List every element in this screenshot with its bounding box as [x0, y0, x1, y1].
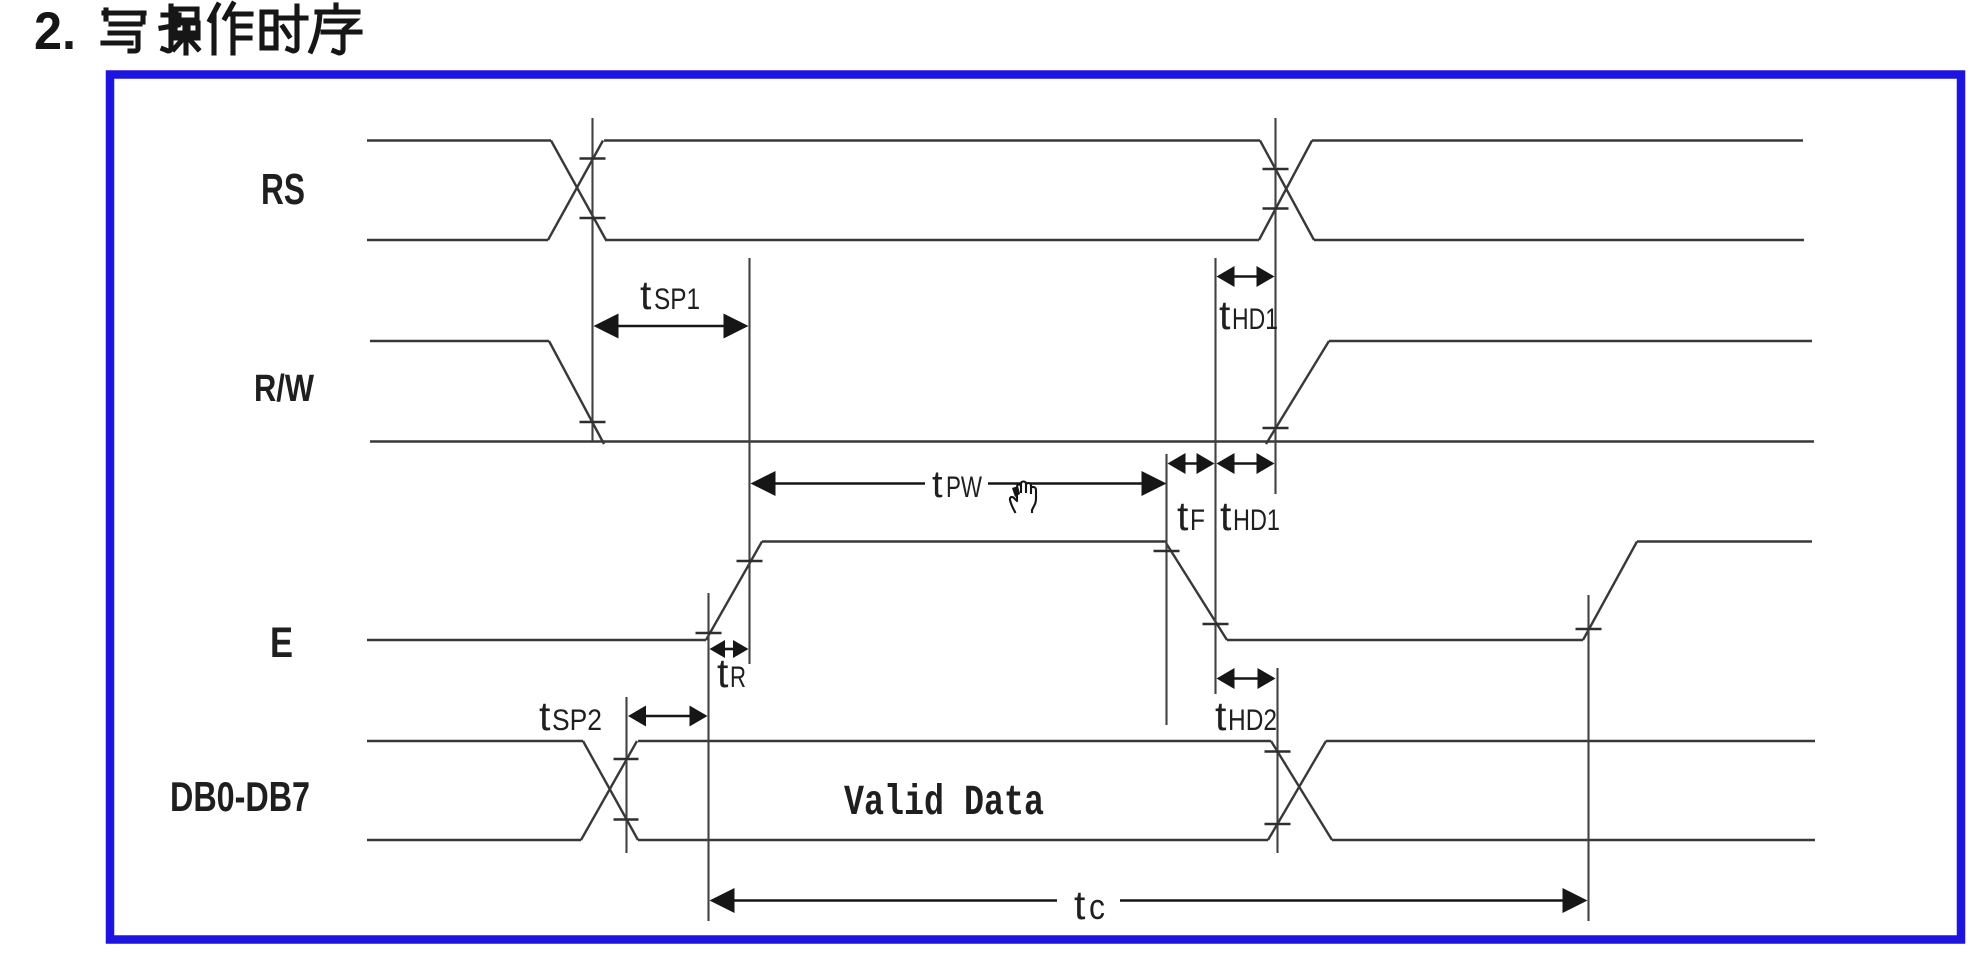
- tHD2 dimension arrow: [1217, 668, 1276, 689]
- tick RS crossover 2 lower: [1263, 207, 1289, 210]
- E rising edge 1: [706, 542, 762, 641]
- tick DB crossover 1 upper: [614, 758, 639, 761]
- tick R/W falling edge: [580, 421, 606, 424]
- RS high level segment middle: [604, 139, 1260, 141]
- svg-text:R/W: R/W: [254, 368, 314, 410]
- RS low level segment right: [1314, 239, 1804, 241]
- svg-text:t: t: [1074, 882, 1086, 928]
- DB high level segment left: [367, 740, 583, 742]
- tick E rising edge upper: [737, 560, 763, 563]
- tC dimension arrow: [710, 888, 1588, 913]
- DB high level segment middle (valid data top): [638, 740, 1271, 742]
- DB crossover 2 falling edge: [1271, 741, 1332, 840]
- R/W high level segment left: [370, 340, 549, 342]
- svg-text:HD2: HD2: [1228, 704, 1277, 737]
- tick RS crossover 2 upper: [1263, 168, 1289, 171]
- title character 时 (time): [262, 6, 306, 51]
- title character 序 (sequence): [311, 5, 360, 53]
- E high level segment right: [1637, 540, 1812, 542]
- E high level segment: [762, 540, 1166, 542]
- tHD1 lower dimension arrow: [1217, 453, 1275, 474]
- DB low level segment left: [367, 839, 581, 841]
- tick DB crossover 1 lower: [614, 818, 639, 821]
- RS low level segment middle: [605, 239, 1259, 241]
- svg-text:t: t: [539, 693, 551, 739]
- svg-text:F: F: [1190, 504, 1205, 537]
- svg-text:Valid Data: Valid Data: [844, 778, 1044, 827]
- R/W falling edge: [549, 341, 604, 444]
- svg-text:SP1: SP1: [654, 283, 700, 316]
- R/W high level segment right: [1329, 340, 1812, 342]
- svg-text:c: c: [1089, 886, 1105, 927]
- tick E rising edge 2: [1576, 628, 1602, 631]
- tR dimension arrow: [710, 640, 749, 658]
- vertical reference line at E rise start (tR/tC left boundary): [707, 593, 709, 921]
- svg-text:RS: RS: [261, 165, 305, 214]
- svg-text:R: R: [730, 661, 746, 694]
- tick DB crossover 2 upper: [1265, 750, 1291, 753]
- R/W low level line full width: [370, 440, 1814, 442]
- E low level segment middle: [1227, 639, 1583, 641]
- vertical reference line at E rising edge (tSP1/tPW boundary): [748, 258, 750, 664]
- tPW dimension arrow: [751, 471, 1167, 496]
- tick RS crossover 1 lower: [580, 217, 606, 220]
- DB crossover 2 rising edge: [1268, 741, 1326, 840]
- E low level segment left: [367, 639, 706, 641]
- svg-text:HD1: HD1: [1232, 303, 1278, 336]
- svg-text:PW: PW: [946, 471, 983, 504]
- svg-text:t: t: [717, 650, 729, 696]
- svg-text:2.: 2.: [34, 2, 76, 61]
- vertical reference line at DB crossover 1: [625, 697, 627, 853]
- tick RS crossover 1 upper: [580, 157, 606, 160]
- svg-text:t: t: [932, 464, 943, 506]
- svg-text:HD1: HD1: [1233, 504, 1280, 537]
- svg-text:t: t: [1219, 292, 1231, 338]
- svg-text:DB0-DB7: DB0-DB7: [170, 773, 310, 820]
- tick DB crossover 2 lower: [1265, 823, 1291, 826]
- tSP1 dimension arrow: [594, 314, 749, 339]
- vertical reference line at E rising edge 2 (tC right boundary): [1587, 595, 1589, 921]
- vertical reference line tHD1 left boundary: [1214, 258, 1216, 694]
- vertical reference line at E falling edge start (tPW right boundary): [1165, 454, 1167, 725]
- tF dimension arrow: [1168, 453, 1215, 474]
- svg-text:t: t: [640, 272, 652, 318]
- RS crossover 1 falling edge: [551, 141, 606, 241]
- DB crossover 1 rising edge: [581, 741, 637, 840]
- RS high level segment right: [1312, 139, 1803, 141]
- vertical reference line at RS crossover 1: [591, 118, 593, 441]
- RS crossover 2 rising edge: [1259, 141, 1312, 241]
- svg-text:t: t: [1177, 493, 1189, 539]
- svg-text:t: t: [1215, 693, 1227, 739]
- R/W rising edge right: [1266, 341, 1329, 444]
- title character 作 (do): [210, 4, 251, 53]
- tSP2 dimension arrow: [628, 706, 708, 727]
- RS crossover 1 rising edge: [548, 141, 603, 241]
- DB low level segment right: [1332, 839, 1815, 841]
- DB low level segment middle (valid data bottom): [638, 839, 1268, 841]
- tick E rising edge lower: [696, 632, 722, 635]
- tick E falling edge lower: [1203, 623, 1229, 626]
- vertical reference line at DB crossover 2 (tHD2 right boundary): [1276, 668, 1278, 853]
- RS high level segment left: [367, 139, 551, 141]
- RS crossover 2 falling edge: [1260, 141, 1314, 241]
- DB high level segment right: [1326, 740, 1815, 742]
- DB crossover 1 falling edge: [583, 741, 638, 840]
- svg-text:SP2: SP2: [552, 704, 602, 737]
- svg-text:E: E: [270, 619, 293, 667]
- E rising edge 2: [1583, 542, 1637, 641]
- E falling edge: [1166, 543, 1227, 640]
- RS low level segment left: [367, 239, 548, 241]
- mouse hand cursor icon: [1010, 482, 1036, 514]
- tHD1 upper dimension arrow: [1217, 266, 1275, 287]
- svg-text:t: t: [1220, 493, 1232, 539]
- tick R/W rising edge: [1263, 427, 1289, 430]
- tick E falling edge upper: [1154, 550, 1180, 553]
- vertical reference line at RS crossover 2: [1274, 118, 1276, 494]
- title character 写 (write): [103, 10, 144, 51]
- title character 操 (operate): [161, 6, 198, 53]
